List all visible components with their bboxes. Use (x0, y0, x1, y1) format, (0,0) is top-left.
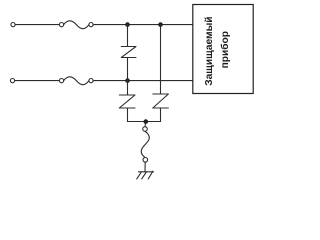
arrester RU2 (zigzag below line2, branch A) (119, 95, 135, 108)
arrester RU1 (zigzag between lines) (121, 47, 136, 58)
fuse F1 right pin circle (89, 23, 93, 27)
arrester RU3 (zigzag below line2, branch B) (153, 94, 169, 108)
wire top-left (15, 24, 59, 26)
wire top-right to box (93, 24, 193, 26)
wire to earth (144, 162, 146, 172)
spark gap FV bottom pin circle (143, 158, 148, 163)
wire branch A lower (127, 108, 129, 122)
fuse F1 wavy link (64, 21, 89, 29)
wire ground bus (128, 121, 161, 123)
wire branch B upper (160, 25, 162, 94)
earth ground symbol (137, 171, 154, 179)
node dot ground bus (144, 119, 149, 124)
wire bottom-right to box (93, 80, 193, 82)
node dot line2/branch A (125, 78, 130, 83)
wire branch B lower (160, 108, 162, 122)
terminal X1 (top-left input) (11, 23, 15, 27)
wire branch A upper (127, 25, 129, 47)
spark gap FV top pin circle (143, 127, 148, 132)
terminal X2 (bottom-left input) (10, 79, 14, 83)
fuse F1 left pin circle (59, 23, 63, 27)
wire branch A middle (127, 58, 129, 96)
protected device box U1 (193, 5, 253, 94)
wire bottom-left (15, 80, 60, 82)
fuse F2 right pin circle (89, 79, 93, 83)
spark gap FV wavy link (141, 131, 149, 157)
node dot line1/branch A (125, 22, 130, 27)
fuse F2 left pin circle (59, 79, 63, 83)
wire bus to spark gap (144, 123, 147, 127)
label "Защищаемый прибор" (204, 14, 231, 86)
node dot line1/branch B (158, 22, 163, 27)
fuse F2 wavy link (64, 77, 89, 85)
